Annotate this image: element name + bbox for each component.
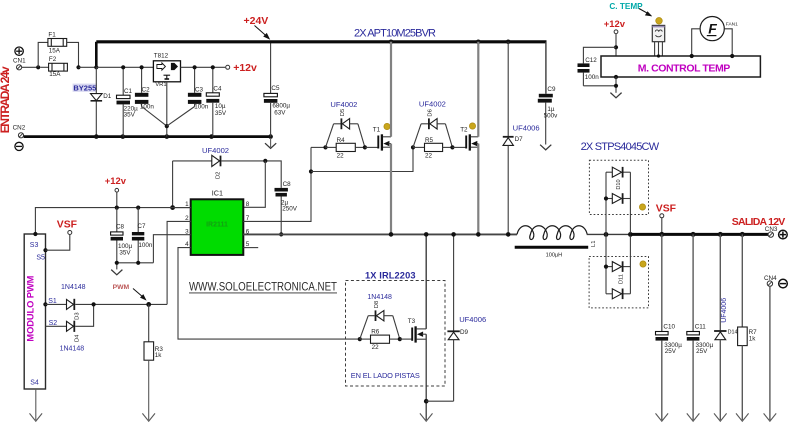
svg-text:D3: D3 <box>74 312 80 319</box>
wire +12v terminal drop <box>116 192 118 208</box>
node R4 left <box>323 145 327 149</box>
svg-text:1N4148: 1N4148 <box>60 345 85 352</box>
wire gate line to R4 network <box>311 146 326 148</box>
wire bottom rectifier cathode leg <box>629 234 631 293</box>
svg-text:D4: D4 <box>74 334 80 342</box>
capacitor C11 <box>687 234 700 420</box>
wire pin3 to cap ground <box>153 235 190 263</box>
capacitor C3 <box>167 67 202 126</box>
yellow dot T1 <box>384 123 390 129</box>
terminal VSF right <box>660 214 664 218</box>
resistor R6 <box>360 335 400 343</box>
svg-text:VSF: VSF <box>656 204 676 215</box>
connector CN3 terminal <box>768 232 773 237</box>
svg-text:100n: 100n <box>585 74 600 81</box>
wire T2 source drop gray <box>477 144 479 235</box>
resistor R4 <box>326 143 365 151</box>
node input rail D1 <box>94 65 98 69</box>
svg-text:IR2111: IR2111 <box>206 222 228 229</box>
wire CN1 to fuse node <box>22 66 39 68</box>
yellow dot STPS bottom <box>640 261 646 267</box>
wire D2 cathode to C8 top <box>221 161 281 188</box>
svg-text:S5: S5 <box>36 254 45 261</box>
arrow C.TEMP to sensor <box>639 9 652 17</box>
svg-text:CN2: CN2 <box>13 124 26 131</box>
wire F1 branch right <box>67 42 79 67</box>
wire bottom rectifier anode leg <box>605 234 607 293</box>
node rail C2 <box>140 65 144 69</box>
svg-text:C12: C12 <box>585 57 597 64</box>
wire fan left lead <box>692 29 700 56</box>
node rectifier cathode bus <box>628 232 633 237</box>
node D4 join PWM line <box>92 302 96 306</box>
svg-text:IC1: IC1 <box>212 189 223 198</box>
node rail C4 <box>211 65 215 69</box>
diode D1 BY255 highlighted label <box>73 84 97 93</box>
svg-text:D9: D9 <box>460 329 469 336</box>
wire pin8 riser <box>243 161 265 207</box>
wire D3 to PWM line <box>75 303 167 305</box>
svg-text:1N4148: 1N4148 <box>61 284 86 291</box>
resistor R3 <box>144 342 154 360</box>
node sensor legs on box <box>657 54 660 57</box>
svg-text:C3: C3 <box>195 86 204 93</box>
ground arrow D14 <box>714 413 727 421</box>
svg-text:C. TEMP: C. TEMP <box>609 2 643 11</box>
diode D5 with bypass arms <box>326 118 365 147</box>
wire bottom 0V bus <box>24 135 271 138</box>
svg-text:D1: D1 <box>103 93 112 100</box>
wire bus drop to C9 <box>545 42 547 94</box>
diode D4 <box>67 321 75 332</box>
svg-text:T1: T1 <box>373 126 381 133</box>
svg-text:S1: S1 <box>48 298 57 305</box>
node switch line C8 bootstrap <box>279 232 283 236</box>
wire pin4 to T3 gate line <box>178 248 360 340</box>
svg-text:1N4148: 1N4148 <box>367 294 392 301</box>
svg-text:250V: 250V <box>282 205 298 212</box>
yellow dot T2 <box>469 123 475 129</box>
ground symbol below 0V bus end <box>265 143 276 148</box>
wire top rectifier anode leg <box>605 172 607 234</box>
svg-text:500v: 500v <box>544 112 559 119</box>
node bus T2 drain <box>476 40 481 45</box>
node pin7 riser gate cross line <box>309 169 313 173</box>
svg-text:VR1: VR1 <box>155 82 166 88</box>
svg-text:UF4002: UF4002 <box>330 100 357 109</box>
diode D9 <box>426 234 460 401</box>
regulator VR1 T812 box <box>153 61 180 82</box>
control box M CONTROL TEMP <box>601 56 760 77</box>
wire pin2 to PWM line <box>167 221 191 304</box>
capacitor C4 <box>206 67 219 136</box>
svg-text:D8: D8 <box>374 301 380 308</box>
svg-text:+12v: +12v <box>105 175 127 186</box>
wire +24V top bus <box>96 40 546 43</box>
svg-text:D2: D2 <box>216 172 222 179</box>
resistor R5 <box>413 143 452 151</box>
wire T2 drain riser gray <box>477 42 479 137</box>
fuse F2 <box>40 63 67 71</box>
node switch line T1 source <box>389 232 394 237</box>
node switch line T2 source <box>476 232 481 237</box>
inductor L1 coil <box>517 226 587 240</box>
capacitor C7 <box>132 208 144 263</box>
svg-text:1: 1 <box>185 201 189 208</box>
svg-text:35V: 35V <box>119 250 131 257</box>
node R5 left <box>411 145 415 149</box>
wire C12 loop <box>583 47 616 63</box>
connector CN4 terminal <box>767 281 772 286</box>
svg-text:C1: C1 <box>124 88 133 95</box>
diode D2 <box>212 155 221 166</box>
inductor L1 core bar <box>515 246 589 249</box>
svg-text:1k: 1k <box>749 336 757 343</box>
dashed box EN EL LADO PISTAS <box>346 281 446 387</box>
svg-text:25V: 25V <box>665 348 677 355</box>
node rail C3 <box>193 65 197 69</box>
terminal VSF left <box>68 231 72 235</box>
svg-text:PWM: PWM <box>113 284 130 291</box>
svg-text:6800µ: 6800µ <box>272 103 290 110</box>
wire fuses to input node <box>79 66 97 68</box>
node rail C8 <box>115 206 119 210</box>
svg-text:F1: F1 <box>48 32 56 39</box>
diode D7 clamp <box>503 42 514 235</box>
text WWW.SOLOELECTRONICA.NET <box>189 281 337 293</box>
wire 24V riser to top bus <box>95 42 98 67</box>
svg-text:+12v: +12v <box>233 62 257 74</box>
svg-text:15A: 15A <box>49 47 61 54</box>
svg-text:MODULO PWM: MODULO PWM <box>26 275 36 341</box>
svg-text:1k: 1k <box>155 352 163 359</box>
svg-text:35V: 35V <box>124 112 136 119</box>
node S1 pin <box>43 302 47 306</box>
wire top rectifier cathode leg <box>629 172 631 234</box>
wire input rail to regulator <box>96 66 153 68</box>
node fuse left <box>36 65 40 69</box>
module PWM box <box>24 234 45 389</box>
node S5 pin <box>43 248 47 252</box>
IC U1 IR2111 green body <box>191 199 244 255</box>
diode D6 with bypass arms <box>413 118 452 147</box>
ground symbol caps <box>111 270 122 275</box>
svg-text:22: 22 <box>372 344 380 351</box>
svg-text:T3: T3 <box>408 318 416 325</box>
svg-text:C8: C8 <box>283 181 292 188</box>
node bus C10 VSF <box>659 232 664 237</box>
ground arrow S4 <box>30 413 43 421</box>
svg-text:100µH: 100µH <box>546 253 563 259</box>
svg-text:25V: 25V <box>696 348 708 355</box>
node bus D14 <box>718 232 723 237</box>
svg-text:BY255: BY255 <box>73 84 96 93</box>
ground symbol C9 <box>540 145 551 150</box>
svg-text:ENTRADA 24v: ENTRADA 24v <box>0 66 12 133</box>
node 0V bus VR1 ground <box>165 134 170 139</box>
node 0V bus D1 <box>94 134 99 139</box>
wire S4 to ground <box>35 389 37 420</box>
svg-text:T812: T812 <box>154 52 169 59</box>
transistor T1 mosfet <box>365 134 391 150</box>
diode D11b lower <box>606 289 630 300</box>
svg-text:T2: T2 <box>460 127 468 134</box>
connector CN1 plus symbol <box>15 47 23 55</box>
wire D4 up to PWM line <box>75 304 93 326</box>
capacitor C5 <box>264 42 278 137</box>
fan FAN1 circle <box>700 17 724 41</box>
ground symbol temp <box>610 93 621 98</box>
dashed box STPS bottom <box>589 257 648 308</box>
svg-text:C2: C2 <box>142 86 151 93</box>
node ground C12 join <box>614 84 618 88</box>
wire S1 to D3 <box>45 303 66 305</box>
svg-text:D10: D10 <box>616 179 622 189</box>
node bus R7 <box>740 232 745 237</box>
capacitor C9 <box>538 94 553 145</box>
wire R3 to ground <box>148 360 150 420</box>
node bus T1 drain <box>389 40 394 45</box>
svg-text:UF4006: UF4006 <box>459 315 486 324</box>
svg-text:22: 22 <box>337 153 345 160</box>
wire T3 source to ground <box>425 334 427 420</box>
ground arrow C11 <box>687 413 700 421</box>
svg-text:R5: R5 <box>425 137 434 144</box>
ground arrow R7 <box>736 413 749 421</box>
wire pin1 stub <box>173 207 191 209</box>
node 0V bus C1 <box>121 134 126 139</box>
svg-text:C5: C5 <box>271 85 280 92</box>
wire T1 drain riser gray <box>390 42 392 137</box>
connector CN4 minus symbol <box>779 279 788 288</box>
svg-text:2X STPS4045CW: 2X STPS4045CW <box>581 141 660 153</box>
wire VSF to S5 <box>46 235 70 251</box>
svg-text:F: F <box>708 20 717 36</box>
svg-text:C8: C8 <box>116 224 125 231</box>
terminal +12v temp <box>614 30 618 34</box>
node rectifier anode bus <box>604 232 609 237</box>
transistor T2 mosfet <box>452 134 478 150</box>
svg-text:F2: F2 <box>49 56 57 63</box>
svg-text:VSF: VSF <box>57 220 77 231</box>
svg-text:C10: C10 <box>663 323 675 330</box>
wire L1 to rectifier node <box>587 233 631 235</box>
ground arrow CN4 <box>764 413 777 421</box>
transistor T3 mosfet <box>400 326 426 342</box>
svg-text:UF4002: UF4002 <box>419 100 446 109</box>
svg-text:D6: D6 <box>427 109 433 116</box>
dashed box STPS top <box>589 160 648 214</box>
svg-text:8: 8 <box>246 201 250 208</box>
svg-text:L1: L1 <box>591 241 597 247</box>
capacitor C8 100u <box>111 208 123 270</box>
wire output 12V bus thick <box>630 233 768 236</box>
wire F1 branch left <box>38 42 48 67</box>
connector CN1 terminal <box>17 65 22 70</box>
wire S2 to D4 <box>46 325 67 327</box>
terminal +12v left rail <box>115 188 119 192</box>
svg-text:2X APT10M25BVR: 2X APT10M25BVR <box>354 28 436 40</box>
svg-text:35V: 35V <box>215 110 227 117</box>
svg-text:S3: S3 <box>30 242 39 249</box>
node switch line D7 <box>506 232 511 237</box>
wire box ground drop <box>615 77 617 93</box>
node fuse right <box>76 65 80 69</box>
diode D11a upper <box>606 261 630 272</box>
svg-text:R4: R4 <box>337 137 346 144</box>
temperature sensor body <box>652 25 664 41</box>
node box bottom ground pin <box>614 75 618 79</box>
svg-text:M. CONTROL TEMP: M. CONTROL TEMP <box>638 63 731 75</box>
arrow +24V to bus <box>255 26 271 40</box>
wire pin7 stub to riser <box>243 147 311 221</box>
wire pin5 stub <box>243 247 258 249</box>
wire pin6 switch node line <box>243 233 517 235</box>
diode D3 <box>67 299 75 310</box>
node +12v C12 branch <box>614 45 618 49</box>
wire VR1 output rail <box>181 66 226 68</box>
svg-text:FAN1: FAN1 <box>726 22 738 28</box>
svg-text:C4: C4 <box>213 85 222 92</box>
node fan left on box <box>690 54 694 58</box>
capacitor C12 <box>578 63 617 85</box>
wire +12v rail to IC pin1 <box>35 208 190 234</box>
diode D14 <box>714 234 726 420</box>
node switch line D9 <box>451 232 456 237</box>
connector CN3 plus symbol <box>779 230 788 239</box>
node top rectifier lower diode <box>604 196 608 200</box>
svg-text:D11: D11 <box>618 274 624 284</box>
wire VSF right drop <box>661 218 663 235</box>
node S3 top pin <box>33 232 37 236</box>
node bus D7 <box>506 40 511 45</box>
svg-text:D7: D7 <box>515 136 524 143</box>
wire fan right lead <box>724 29 732 56</box>
svg-text:S4: S4 <box>30 380 39 387</box>
node cap ground C7 <box>136 261 140 265</box>
ground arrow R3 <box>142 413 155 421</box>
diode D10b lower <box>606 193 630 204</box>
svg-text:1X IRL2203: 1X IRL2203 <box>365 270 416 280</box>
svg-text:C7: C7 <box>137 223 146 230</box>
capacitor C1 <box>117 67 131 136</box>
wire D2 anode from +12v node <box>173 161 212 208</box>
wire T1 source drop gray <box>390 144 392 235</box>
ground arrow T3 <box>420 413 433 421</box>
node R6 left <box>358 337 362 341</box>
node D2 line pin8 riser <box>263 159 267 163</box>
sensor legs <box>655 42 663 56</box>
wire +12v temp drop <box>615 34 617 56</box>
fuse F1 <box>48 39 67 47</box>
svg-text:D5: D5 <box>340 109 346 116</box>
node switch line T3 drain <box>424 232 429 237</box>
arrow PWM to node <box>133 289 147 301</box>
ground arrow C10 <box>656 413 669 421</box>
node 0V bus end C5 <box>268 134 273 139</box>
diode D1 <box>91 67 103 136</box>
node bottom rectifier upper diode <box>604 265 608 269</box>
svg-text:D14: D14 <box>728 330 738 336</box>
node rail C1 <box>121 65 125 69</box>
svg-text:15A: 15A <box>49 71 61 78</box>
wire R3 top <box>148 304 150 341</box>
node pin1 +12v junction <box>170 205 175 210</box>
svg-text:UF4006: UF4006 <box>513 123 540 132</box>
node cap ground C8 <box>115 261 119 265</box>
svg-text:EN EL LADO PISTAS: EN EL LADO PISTAS <box>351 371 420 380</box>
svg-text:UF4006: UF4006 <box>721 298 728 323</box>
svg-text:R6: R6 <box>371 328 380 335</box>
node R5 right <box>450 145 454 149</box>
node R6 right <box>398 337 402 341</box>
connector CN2 minus symbol <box>15 142 23 150</box>
wire cap ground tie line <box>117 262 154 264</box>
svg-text:22: 22 <box>425 153 433 160</box>
yellow dot STPS top <box>639 204 645 210</box>
svg-text:CN1: CN1 <box>13 58 26 65</box>
yellow dot sensor <box>656 18 663 25</box>
svg-text:+24V: +24V <box>244 15 269 27</box>
node VR1 ground diagonal join <box>165 124 169 128</box>
svg-text:C9: C9 <box>547 86 556 93</box>
node PWM R3 junction <box>146 302 151 307</box>
wire gate cross line to T2 leg <box>311 147 413 171</box>
svg-text:100n: 100n <box>140 104 155 111</box>
svg-text:100n: 100n <box>194 104 209 111</box>
node bus C11 <box>691 232 696 237</box>
connector CN2 terminal <box>18 133 23 138</box>
node fan right on box <box>730 54 734 58</box>
diode D10a top <box>606 167 630 178</box>
svg-text:C11: C11 <box>695 323 707 330</box>
wire T3 drain riser <box>425 234 427 329</box>
node R4 right <box>363 145 367 149</box>
svg-text:100n: 100n <box>138 242 153 249</box>
node rail C7 <box>136 206 140 210</box>
capacitor C2 <box>135 67 167 126</box>
svg-text:UF4002: UF4002 <box>202 146 229 155</box>
diode D8 with bypass arms <box>360 310 400 339</box>
capacitor C10 <box>656 234 669 420</box>
terminal +12v regulator output <box>226 65 230 69</box>
node T3 source D9 join <box>424 399 429 404</box>
resistor R7 <box>738 234 748 420</box>
svg-text:WWW.SOLOELECTRONICA.NET: WWW.SOLOELECTRONICA.NET <box>189 281 337 293</box>
node 0V bus C4 <box>209 134 214 139</box>
svg-text:63V: 63V <box>274 110 286 117</box>
wire VR1 ground leg <box>166 82 168 137</box>
svg-text:+12v: +12v <box>604 18 626 29</box>
wire CN4 to ground <box>769 286 771 420</box>
capacitor C8 bootstrap 2u <box>275 188 288 235</box>
